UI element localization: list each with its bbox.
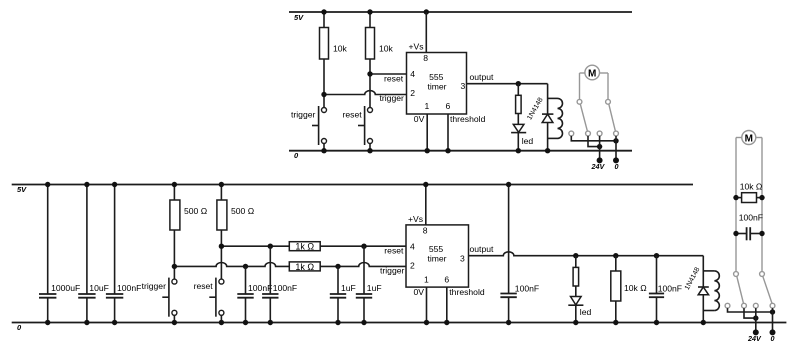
junctions C10 on motor leads	[733, 231, 738, 236]
capacitor C6 1uF (trigger)	[330, 266, 356, 322]
junction crossover1 / 0 terminal wire (bottom)	[770, 309, 775, 314]
svg-text:4: 4	[410, 69, 415, 79]
diode D2 1N4148 (protection, pointing up)	[542, 114, 553, 122]
svg-text:reset: reset	[194, 281, 214, 291]
svg-text:10k: 10k	[333, 44, 348, 54]
relay contact RLB1 (left): pole + moving arm	[734, 272, 744, 304]
svg-text:100nF: 100nF	[273, 283, 297, 293]
junctions C2 on rails	[84, 182, 89, 187]
svg-text:reset: reset	[384, 245, 404, 255]
svg-text:M: M	[588, 69, 596, 80]
junction C4 on 0V rail	[243, 320, 248, 325]
junction reset line at C5	[268, 244, 273, 249]
svg-text:1uF: 1uF	[367, 283, 382, 293]
svg-text:6: 6	[446, 101, 451, 111]
wire contact crossover 1 (to 0 terminal, bottom)	[728, 308, 773, 312]
svg-text:threshold: threshold	[449, 287, 485, 297]
svg-text:0: 0	[771, 334, 775, 343]
junction trigger line at C4	[243, 264, 248, 269]
push-switch S3 trigger (bottom)	[162, 278, 177, 323]
svg-text:4: 4	[410, 242, 415, 252]
resistor R7 1k (in trigger line)	[289, 262, 320, 271]
svg-text:3: 3	[461, 81, 466, 91]
relay coil RLB	[703, 271, 719, 311]
op IC U1 555 timer box	[407, 53, 467, 115]
push-switch S2 reset	[358, 106, 373, 151]
junction R5 on 5V rail	[219, 182, 224, 187]
junction R4 on 5V rail	[172, 182, 177, 187]
svg-text:24V: 24V	[747, 334, 762, 343]
capacitor C2 10uF	[78, 185, 109, 323]
wire pin 6 to 0V rail (bottom)	[446, 287, 448, 322]
wire +5V supply rail (top)	[289, 11, 632, 13]
junction on 5V rail at 555 +Vs stub	[424, 9, 429, 14]
svg-text:1N4148: 1N4148	[526, 97, 544, 122]
junction trigger line at C6	[335, 264, 340, 269]
junction reset line at R2	[367, 71, 372, 76]
svg-text:2: 2	[410, 88, 415, 98]
junction trigger line at R4	[172, 264, 177, 269]
wire pin 6 to 0V rail	[447, 114, 449, 151]
junctions C1 on rails	[45, 182, 50, 187]
svg-text:100nF: 100nF	[515, 283, 539, 293]
junction pin8 on 5V rail	[423, 182, 428, 187]
svg-text:10uF: 10uF	[89, 283, 109, 293]
svg-text:8: 8	[423, 225, 428, 235]
wire motor to contact (right, grey)	[607, 73, 609, 99]
svg-text:0: 0	[17, 323, 22, 332]
resistor R5 500 ohm (reset pull-up)	[217, 185, 255, 280]
svg-text:1000uF: 1000uF	[51, 283, 80, 293]
wire 0V rail (bottom circuit)	[12, 322, 787, 324]
junction LED on 0V rail (bottom)	[573, 320, 578, 325]
svg-text:+Vs: +Vs	[409, 42, 424, 52]
svg-text:6: 6	[444, 274, 449, 284]
junction pin6/0V rail	[445, 148, 450, 153]
junction on 5V rail at R2	[367, 9, 372, 14]
junction C8 on 0V rail	[506, 320, 511, 325]
capacitor C8 100nF (supply decoupling, rail to rail)	[500, 185, 539, 323]
wire relay branch vertical (bottom)	[702, 256, 704, 323]
svg-text:1: 1	[425, 101, 430, 111]
junction C6 on 0V rail	[335, 320, 340, 325]
capacitor C5 100nF (reset, crosses trigger line)	[262, 246, 297, 322]
wire pin 1 to 0V rail (bottom)	[426, 287, 428, 322]
junction S4 on 0V rail	[219, 320, 224, 325]
wire contact crossover 2 (to 24V terminal, bottom)	[744, 308, 756, 318]
terminal dot 0 (bottom)	[770, 329, 776, 335]
svg-text:555: 555	[429, 72, 444, 82]
junction C7 on 0V rail	[361, 320, 366, 325]
wire pin 1 to 0V rail	[426, 114, 428, 151]
capacitor C4 100nF (trigger)	[237, 266, 272, 322]
junction output at C9	[654, 253, 659, 258]
resistor R2 10k (vertical, second)	[366, 12, 394, 108]
junction LED/0V rail	[516, 148, 521, 153]
contact terminal circles (bottom row)	[569, 131, 574, 136]
junction on 5V rail at R1	[321, 9, 326, 14]
svg-text:1: 1	[424, 274, 429, 284]
svg-text:timer: timer	[427, 254, 446, 264]
terminal dot 24V	[597, 157, 603, 163]
capacitor C10 100nF (snubber)	[736, 213, 763, 241]
relay coil RLA	[548, 98, 563, 138]
wire reset line after R6	[320, 245, 406, 247]
svg-text:led: led	[580, 307, 592, 317]
junction relay branch on 0V rail	[701, 320, 706, 325]
motor M2	[736, 131, 762, 145]
svg-text:5V: 5V	[17, 185, 27, 194]
junction reset line at R5	[219, 244, 224, 249]
svg-text:+Vs: +Vs	[408, 214, 423, 224]
svg-text:24V: 24V	[591, 162, 606, 171]
terminal dot 24V (bottom)	[753, 329, 759, 335]
junction output at LED branch (bottom)	[573, 253, 578, 258]
svg-text:2: 2	[410, 260, 415, 270]
wire motor right lead down (grey)	[761, 138, 763, 272]
svg-text:100nF: 100nF	[117, 283, 141, 293]
junctions R10 on motor leads	[733, 195, 738, 200]
svg-text:100nF: 100nF	[739, 213, 763, 223]
junction crossover2 / 24V terminal wire (bottom)	[753, 315, 758, 320]
svg-text:10k Ω: 10k Ω	[624, 283, 647, 293]
junction R9 on 0V rail	[613, 320, 618, 325]
push-switch S4 reset (bottom)	[209, 278, 224, 323]
svg-text:trigger: trigger	[142, 281, 166, 291]
wire +5V supply rail (bottom circuit)	[12, 184, 693, 186]
svg-text:output: output	[470, 72, 495, 82]
IC U2 555 timer box (bottom)	[406, 225, 469, 287]
relay contact RLB1 (right): pole + moving arm	[760, 272, 772, 304]
svg-text:trigger: trigger	[291, 109, 315, 119]
wire contact crossover 2 (to 24V terminal)	[588, 136, 600, 147]
svg-text:1k Ω: 1k Ω	[295, 262, 314, 272]
svg-text:0: 0	[615, 162, 619, 171]
diode D4 1N4148 (bottom)	[698, 287, 709, 295]
capacitor C3 100nF	[106, 185, 141, 323]
svg-text:500 Ω: 500 Ω	[231, 206, 255, 216]
junction pin1 on 0V rail	[424, 320, 429, 325]
capacitor C7 1uF (reset, crosses trigger line)	[356, 246, 382, 322]
resistor R3 (LED series)	[516, 84, 522, 125]
resistor R8 (LED series, bottom)	[573, 256, 579, 297]
svg-text:output: output	[470, 244, 495, 254]
svg-text:trigger: trigger	[380, 265, 404, 275]
relay contact RLA1 (left): pole + moving arm	[577, 99, 587, 131]
junction pin6 on 0V rail	[444, 320, 449, 325]
LED D1	[511, 124, 526, 150]
wire 0 terminal (bottom)	[772, 308, 774, 332]
wire relay branch vertical	[547, 84, 549, 151]
junction trigger line at R1	[321, 92, 326, 97]
wire trigger line after R7 with hop	[320, 263, 406, 267]
resistor R1 10k (vertical, left)	[320, 12, 348, 108]
svg-text:0V: 0V	[414, 287, 425, 297]
wire 0 terminal	[615, 136, 617, 161]
svg-text:reset: reset	[384, 74, 404, 84]
relay contact RLA1 (right): pole + moving arm	[606, 99, 616, 131]
wire 0V rail (top)	[289, 150, 632, 152]
terminal dot 0	[613, 157, 619, 163]
capacitor C1 1000uF	[39, 185, 80, 323]
svg-text:reset: reset	[343, 109, 363, 119]
LED D3 (bottom)	[568, 297, 583, 323]
capacitor C9 100nF (output)	[649, 256, 682, 323]
svg-text:threshold: threshold	[450, 114, 486, 124]
junction relay branch/0V rail	[545, 148, 550, 153]
svg-text:10k: 10k	[379, 44, 394, 54]
wire reset line (to pin 4)	[221, 245, 289, 247]
wire motor to contact (left, grey)	[579, 73, 581, 99]
wire trigger line (to pin 2) with hops	[174, 262, 289, 266]
motor M1	[580, 65, 609, 80]
wire motor left lead down (grey)	[735, 138, 737, 272]
junction C5 on 0V rail	[268, 320, 273, 325]
junction output at R9	[613, 253, 618, 258]
svg-text:M: M	[745, 134, 753, 145]
svg-text:timer: timer	[427, 82, 446, 92]
junction output at LED branch	[516, 81, 521, 86]
wire output from pin 3 (bottom) with hop over C8	[469, 252, 704, 256]
svg-text:5V: 5V	[294, 13, 304, 22]
wire pin 8 stub to 5V	[425, 12, 427, 53]
wire 24V terminal (bottom)	[755, 308, 757, 332]
wire contact crossover 1 (to 0 terminal)	[571, 136, 616, 141]
push-switch S1 trigger	[312, 106, 327, 151]
wire output from pin 3	[467, 83, 548, 85]
resistor R4 500 ohm (trigger pull-up)	[170, 185, 208, 280]
junction S3 on 0V rail	[172, 320, 177, 325]
junction reset line at C7	[361, 244, 366, 249]
resistor R9 10k ohm	[611, 256, 647, 323]
svg-text:trigger: trigger	[380, 93, 404, 103]
svg-text:10k Ω: 10k Ω	[740, 182, 763, 192]
contact terminal circles (bottom row, bottom circuit)	[725, 303, 730, 308]
wire 24V terminal	[599, 136, 601, 161]
svg-text:555: 555	[429, 244, 444, 254]
resistor R10 10k ohm (snubber)	[736, 182, 763, 203]
svg-text:100nF: 100nF	[248, 283, 272, 293]
wire pin 8 stub to 5V (bottom)	[425, 185, 427, 225]
svg-text:100nF: 100nF	[658, 283, 682, 293]
svg-text:500 Ω: 500 Ω	[184, 206, 208, 216]
junction pin1/0V rail	[425, 148, 430, 153]
junction 0V rail at S2	[367, 148, 372, 153]
svg-text:0V: 0V	[414, 114, 425, 124]
junction crossover2 / 24V terminal wire	[597, 144, 602, 149]
svg-text:0: 0	[294, 151, 299, 160]
svg-text:led: led	[522, 136, 534, 146]
junction C8 on 5V rail	[506, 182, 511, 187]
svg-text:1uF: 1uF	[341, 283, 356, 293]
resistor R6 1k (in reset line)	[289, 242, 320, 251]
junction C9 on 0V rail	[654, 320, 659, 325]
wire reset line to pin 4	[370, 73, 407, 75]
svg-text:3: 3	[460, 254, 465, 264]
svg-text:8: 8	[423, 53, 428, 63]
junctions C3 on rails	[112, 182, 117, 187]
junction crossover1 / 0 terminal wire	[613, 138, 618, 143]
junction 0V rail at S1	[321, 148, 326, 153]
svg-text:1k Ω: 1k Ω	[295, 242, 314, 252]
wire trigger line to pin 2 (hop over R2 wire)	[324, 91, 407, 95]
